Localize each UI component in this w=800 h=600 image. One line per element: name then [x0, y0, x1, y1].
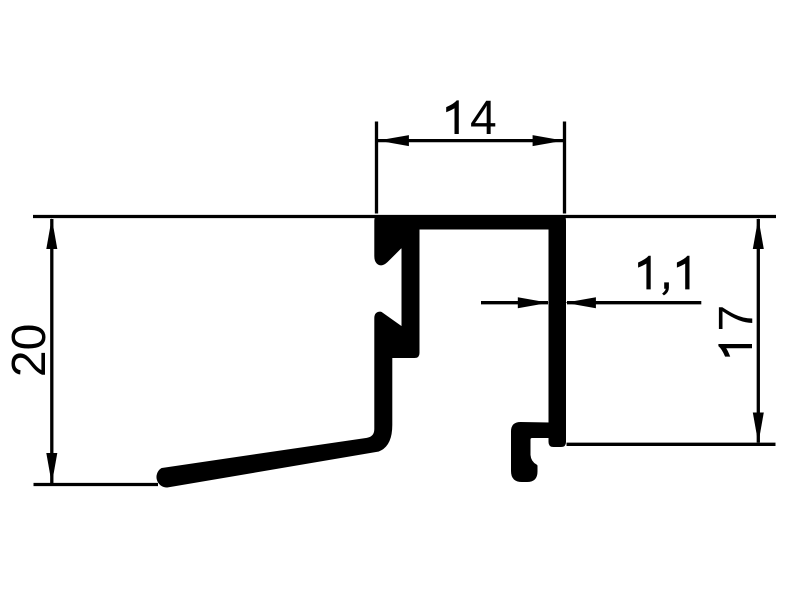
svg-text:4: 4 [470, 92, 497, 145]
svg-text:7: 7 [710, 305, 763, 332]
svg-text:20: 20 [3, 324, 56, 377]
